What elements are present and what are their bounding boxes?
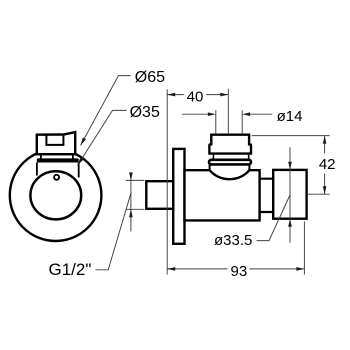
front view: push button (37, 132, 75, 154)
pipe dimension arrows (129, 172, 133, 180)
dimension 42 arrows (323, 136, 327, 144)
front view: plate sides behind rosette (37, 163, 79, 178)
front view: collar band (filled) (37, 158, 79, 162)
dimension o33.5 arrows (288, 162, 292, 170)
front view: wall rosette circle O65 (10, 149, 102, 241)
dimension o14 line (182, 113, 272, 115)
label O65 leader (81, 76, 131, 146)
front view: small screw hole (54, 175, 59, 180)
front view: button bottom edge (36, 153, 76, 155)
washer line under push button (side view) (213, 155, 248, 159)
knurled ring band (side view) (209, 160, 251, 165)
valve body (side view) with cartridge intersection curve (185, 170, 260, 220)
dimension 42 line (324, 136, 326, 195)
pipe dimension vertical line (130, 173, 132, 232)
extension line: 93 right (outlet end) (303, 222, 305, 275)
svg-text:Ø65: Ø65 (135, 69, 165, 86)
dimension 93 arrows (167, 267, 175, 271)
push button (side view) (209, 135, 251, 154)
front view: valve rosette circle O35 (30, 171, 81, 219)
dimension 40 arrows (167, 93, 175, 97)
dimension 40 line (167, 94, 228, 96)
wall flange (side view, rosette edge) (173, 149, 184, 244)
outlet block o33.5 (side view) (273, 170, 306, 219)
svg-text:42: 42 (319, 156, 336, 173)
inlet pipe nipple G1/2 (side view) (146, 181, 173, 209)
dimension o33.5 vertical line (289, 147, 291, 243)
front view: neck sides (41, 154, 73, 159)
extension lines: o14 (216, 110, 242, 133)
extension lines: pipe o (G1/2) (126, 180, 145, 209)
svg-text:93: 93 (231, 263, 248, 280)
front view: button notch (46, 134, 63, 145)
svg-text:G1/2": G1/2" (49, 260, 92, 279)
svg-text:ø33.5: ø33.5 (214, 232, 252, 249)
bonnet neck sides (side view) (210, 164, 250, 171)
extension line: 40 right / button centerline (227, 89, 229, 134)
extension line: 42 bottom (outlet axis) (307, 193, 330, 195)
svg-text:40: 40 (187, 89, 204, 106)
extension line: 42 top (from button top) (252, 135, 330, 137)
svg-text:Ø35: Ø35 (130, 104, 160, 121)
outlet stub between body and outlet (side view) (260, 179, 274, 212)
dimension o14 arrows (208, 112, 216, 116)
dimension 93 line (167, 268, 304, 270)
label O35 leader (77, 110, 126, 165)
extension line: wall plane (left, shared by 40 and 93) (166, 89, 168, 274)
label G1/2 leader (96, 192, 132, 269)
svg-text:ø14: ø14 (277, 108, 303, 125)
leader o33.5 (257, 194, 291, 240)
